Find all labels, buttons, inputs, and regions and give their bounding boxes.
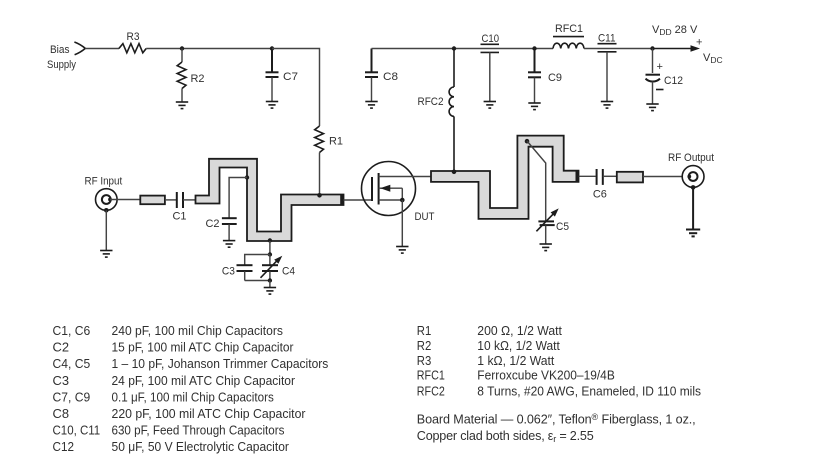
svg-text:R3: R3 — [127, 31, 140, 43]
svg-text:C8: C8 — [53, 407, 70, 421]
wire connector to ground — [692, 187, 694, 229]
node Bias Supply label — [47, 44, 76, 71]
svg-text:DUT: DUT — [415, 211, 435, 223]
wire bias supply to R3 — [86, 48, 120, 50]
wire bottom bus — [245, 280, 270, 282]
svg-text:C1, C6: C1, C6 — [53, 324, 91, 338]
drain trace end cap — [576, 171, 579, 182]
ground C10 — [484, 102, 496, 109]
capacitor C6 — [593, 169, 617, 201]
RF output coax connector — [682, 166, 704, 190]
svg-text:RF Output: RF Output — [668, 152, 714, 164]
resistor R1 — [315, 126, 343, 195]
node C9 junction — [532, 46, 536, 50]
svg-text:C12: C12 — [53, 440, 75, 454]
svg-text:R1: R1 — [329, 136, 343, 148]
wire connector to stub — [110, 199, 140, 201]
ground C8 — [365, 102, 377, 109]
svg-text:R2: R2 — [417, 339, 432, 353]
node RFC2 to drain microstrip junction — [452, 170, 457, 175]
node C3 C4 bottom bus junction — [268, 278, 272, 282]
ground RF output — [686, 230, 700, 237]
microstrip stub output — [617, 172, 643, 183]
node R1 to gate microstrip junction — [317, 193, 322, 198]
svg-text:RFC2: RFC2 — [418, 96, 444, 108]
wire top bus — [245, 255, 270, 265]
svg-text:24 pF, 100 mil ATC Chip Capaci: 24 pF, 100 mil ATC Chip Capacitor — [112, 374, 296, 388]
capacitor C11 (feed-through) — [598, 33, 617, 102]
svg-text:1 – 10 pF, Johanson Trimmer Ca: 1 – 10 pF, Johanson Trimmer Capacitors — [112, 357, 329, 371]
svg-text:15 pF, 100 mil ATC Chip Capaci: 15 pF, 100 mil ATC Chip Capacitor — [112, 341, 294, 355]
ground C7 — [266, 102, 278, 109]
resistor R3 — [119, 44, 146, 53]
inductor RFC1 — [553, 23, 584, 49]
svg-text:8 Turns, #20 AWG, Enameled, ID: 8 Turns, #20 AWG, Enameled, ID 110 mils — [477, 384, 701, 398]
svg-text:+: + — [696, 37, 702, 49]
svg-text:C5: C5 — [556, 221, 569, 233]
svg-text:C10: C10 — [482, 33, 500, 45]
wire C8 to VDD rail — [372, 48, 554, 50]
svg-text:C3: C3 — [222, 266, 235, 278]
node C7 junction — [270, 46, 274, 50]
svg-text:C2: C2 — [53, 341, 70, 355]
svg-text:RFC2: RFC2 — [417, 384, 445, 398]
capacitor C8 — [365, 49, 398, 102]
capacitor C2 — [206, 178, 248, 241]
wire bus to ground — [269, 281, 271, 288]
bias supply input terminal chevron — [74, 42, 85, 55]
board material note — [417, 412, 696, 444]
gate matching microstrip trace — [196, 159, 344, 241]
inductor RFC2 — [418, 49, 455, 172]
resistor R2 — [177, 49, 204, 103]
svg-text:C7: C7 — [283, 71, 298, 83]
node RFC2 junction — [452, 46, 456, 50]
RF input coax connector — [96, 189, 118, 213]
ground C3 C4 — [264, 288, 276, 295]
svg-text:VDD 28 V: VDD 28 V — [652, 24, 698, 37]
svg-text:C3: C3 — [53, 374, 70, 388]
transistor DUT (MOSFET) — [362, 162, 435, 247]
parts list left column — [53, 324, 329, 454]
node VDD junction — [650, 46, 654, 50]
ground DUT source — [396, 247, 408, 254]
svg-text:220 pF, 100 mil ATC Chip Capa: 220 pF, 100 mil ATC Chip Capacitor — [112, 407, 306, 421]
svg-text:Supply: Supply — [47, 59, 76, 71]
parts list right column — [417, 324, 701, 398]
wire junction to C3 C4 bus — [269, 241, 271, 255]
svg-text:1 kΩ, 1/2 Watt: 1 kΩ, 1/2 Watt — [477, 354, 554, 368]
ground C5 — [540, 244, 552, 251]
svg-text:C8: C8 — [383, 71, 398, 83]
svg-text:C7, C9: C7, C9 — [53, 390, 91, 404]
wire R3 to C7 node — [146, 48, 272, 50]
svg-text:10 kΩ, 1/2 Watt: 10 kΩ, 1/2 Watt — [477, 339, 560, 353]
capacitor C12 (electrolytic) — [646, 49, 684, 105]
ground RF input — [100, 251, 112, 258]
svg-text:+: + — [657, 61, 663, 73]
svg-text:C12: C12 — [664, 75, 683, 87]
drain matching microstrip trace — [431, 136, 579, 219]
svg-text:Bias: Bias — [50, 44, 70, 56]
capacitor C10 (feed-through) — [481, 33, 500, 102]
svg-text:Ferroxcube VK200–19/4B: Ferroxcube VK200–19/4B — [477, 368, 615, 382]
capacitor C3 — [222, 265, 253, 280]
svg-text:240 pF, 100 mil Chip Capacitor: 240 pF, 100 mil Chip Capacitors — [112, 324, 283, 338]
svg-text:Copper clad both sides, εr = 2: Copper clad both sides, εr = 2.55 — [417, 429, 594, 444]
ground C2 — [223, 241, 235, 248]
svg-text:C11: C11 — [598, 33, 616, 45]
wire stub to C1 — [165, 199, 176, 201]
capacitor C1 — [173, 192, 197, 223]
ground C11 — [601, 102, 613, 109]
svg-text:C6: C6 — [593, 189, 607, 201]
wire drain trace to C6 — [579, 175, 596, 177]
wire RFC1 to VDD node — [584, 48, 653, 50]
capacitor C4 (trimmer) — [261, 255, 296, 281]
svg-text:C9: C9 — [548, 72, 562, 84]
svg-text:200 Ω, 1/2 Watt: 200 Ω, 1/2 Watt — [477, 324, 562, 338]
wire C7 node to R1 corner — [272, 49, 320, 127]
VDC output arrow — [653, 37, 723, 66]
svg-text:RF Input: RF Input — [85, 176, 123, 188]
wire gate trace to DUT gate — [344, 199, 373, 201]
svg-text:R3: R3 — [417, 354, 432, 368]
svg-text:C2: C2 — [206, 218, 220, 230]
svg-text:630 pF, Feed Through Capacitor: 630 pF, Feed Through Capacitors — [112, 424, 285, 438]
svg-text:RFC1: RFC1 — [555, 23, 583, 35]
gate trace end cap — [340, 195, 343, 206]
node C2 tap junction — [245, 175, 249, 179]
node C5 tap junction — [525, 139, 530, 144]
svg-text:0.1 μF, 100 mil Chip Capacitor: 0.1 μF, 100 mil Chip Capacitors — [112, 390, 274, 404]
svg-text:C4: C4 — [282, 266, 295, 278]
wire stub to RF output connector — [643, 176, 682, 178]
svg-text:R1: R1 — [417, 324, 432, 338]
node R2 junction — [180, 46, 184, 50]
svg-text:C4, C5: C4, C5 — [53, 357, 91, 371]
svg-text:C10, C11: C10, C11 — [53, 424, 101, 438]
capacitor C5 (trimmer) — [527, 141, 569, 244]
ground C12 — [646, 104, 658, 111]
node microstrip to C3 C4 junction — [268, 238, 272, 242]
node C3 C4 top bus junction — [268, 252, 272, 256]
microstrip stub input — [140, 196, 165, 205]
svg-text:50 μF, 50 V Electrolytic Capac: 50 μF, 50 V Electrolytic Capacitor — [112, 440, 289, 454]
capacitor C9 — [528, 49, 562, 104]
capacitor C7 — [266, 49, 299, 102]
svg-text:Board Material — 0.062″, Teflo: Board Material — 0.062″, Teflon® Fibergl… — [417, 412, 696, 427]
svg-text:R2: R2 — [191, 73, 205, 85]
svg-text:C1: C1 — [173, 211, 187, 223]
ground R2 — [176, 102, 188, 109]
wire connector to ground — [105, 210, 107, 250]
svg-text:RFC1: RFC1 — [417, 368, 445, 382]
ground C9 — [528, 103, 540, 110]
